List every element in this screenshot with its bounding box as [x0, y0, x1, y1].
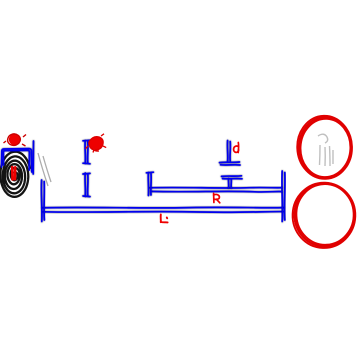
red scribble label near x=95 tick: [86, 134, 107, 153]
right end tick (shared): [282, 171, 285, 222]
wire: bottom stroke of second line: [151, 190, 282, 193]
red label L with dot under main line: [161, 215, 168, 223]
left end tick of main line: [41, 180, 44, 222]
tee mark (bar top, stem down to second line) at x=230: [222, 176, 243, 188]
perpendicular mark (stem up, bar below) at x=229: [220, 141, 241, 166]
bracket over coil: [2, 141, 34, 174]
red label d near perpendicular mark: [234, 143, 239, 153]
red tick in coil centre: [12, 167, 15, 180]
second dimension line (upper, shorter): [150, 188, 282, 192]
left tick of second line at x=149: [146, 172, 153, 195]
wire: bottom stroke of main line: [43, 211, 283, 214]
faint pencil scribble inside upper circle: [318, 134, 333, 166]
red dot label above coil: [4, 134, 27, 146]
wire: top stroke of main line: [42, 206, 284, 209]
main dimension line (long, lower): [42, 207, 284, 212]
wire: top stroke of second line: [150, 187, 282, 189]
intermediate tick at x=86 (two segments): [83, 140, 90, 196]
figure-eight upper circle (red): [296, 115, 354, 181]
red label R under second line: [214, 193, 220, 203]
coil spiral (rolled element, dark ink): [0, 152, 30, 197]
faint pencil diagonals right of coil: [38, 153, 51, 186]
figure-eight lower circle (red): [291, 181, 356, 249]
